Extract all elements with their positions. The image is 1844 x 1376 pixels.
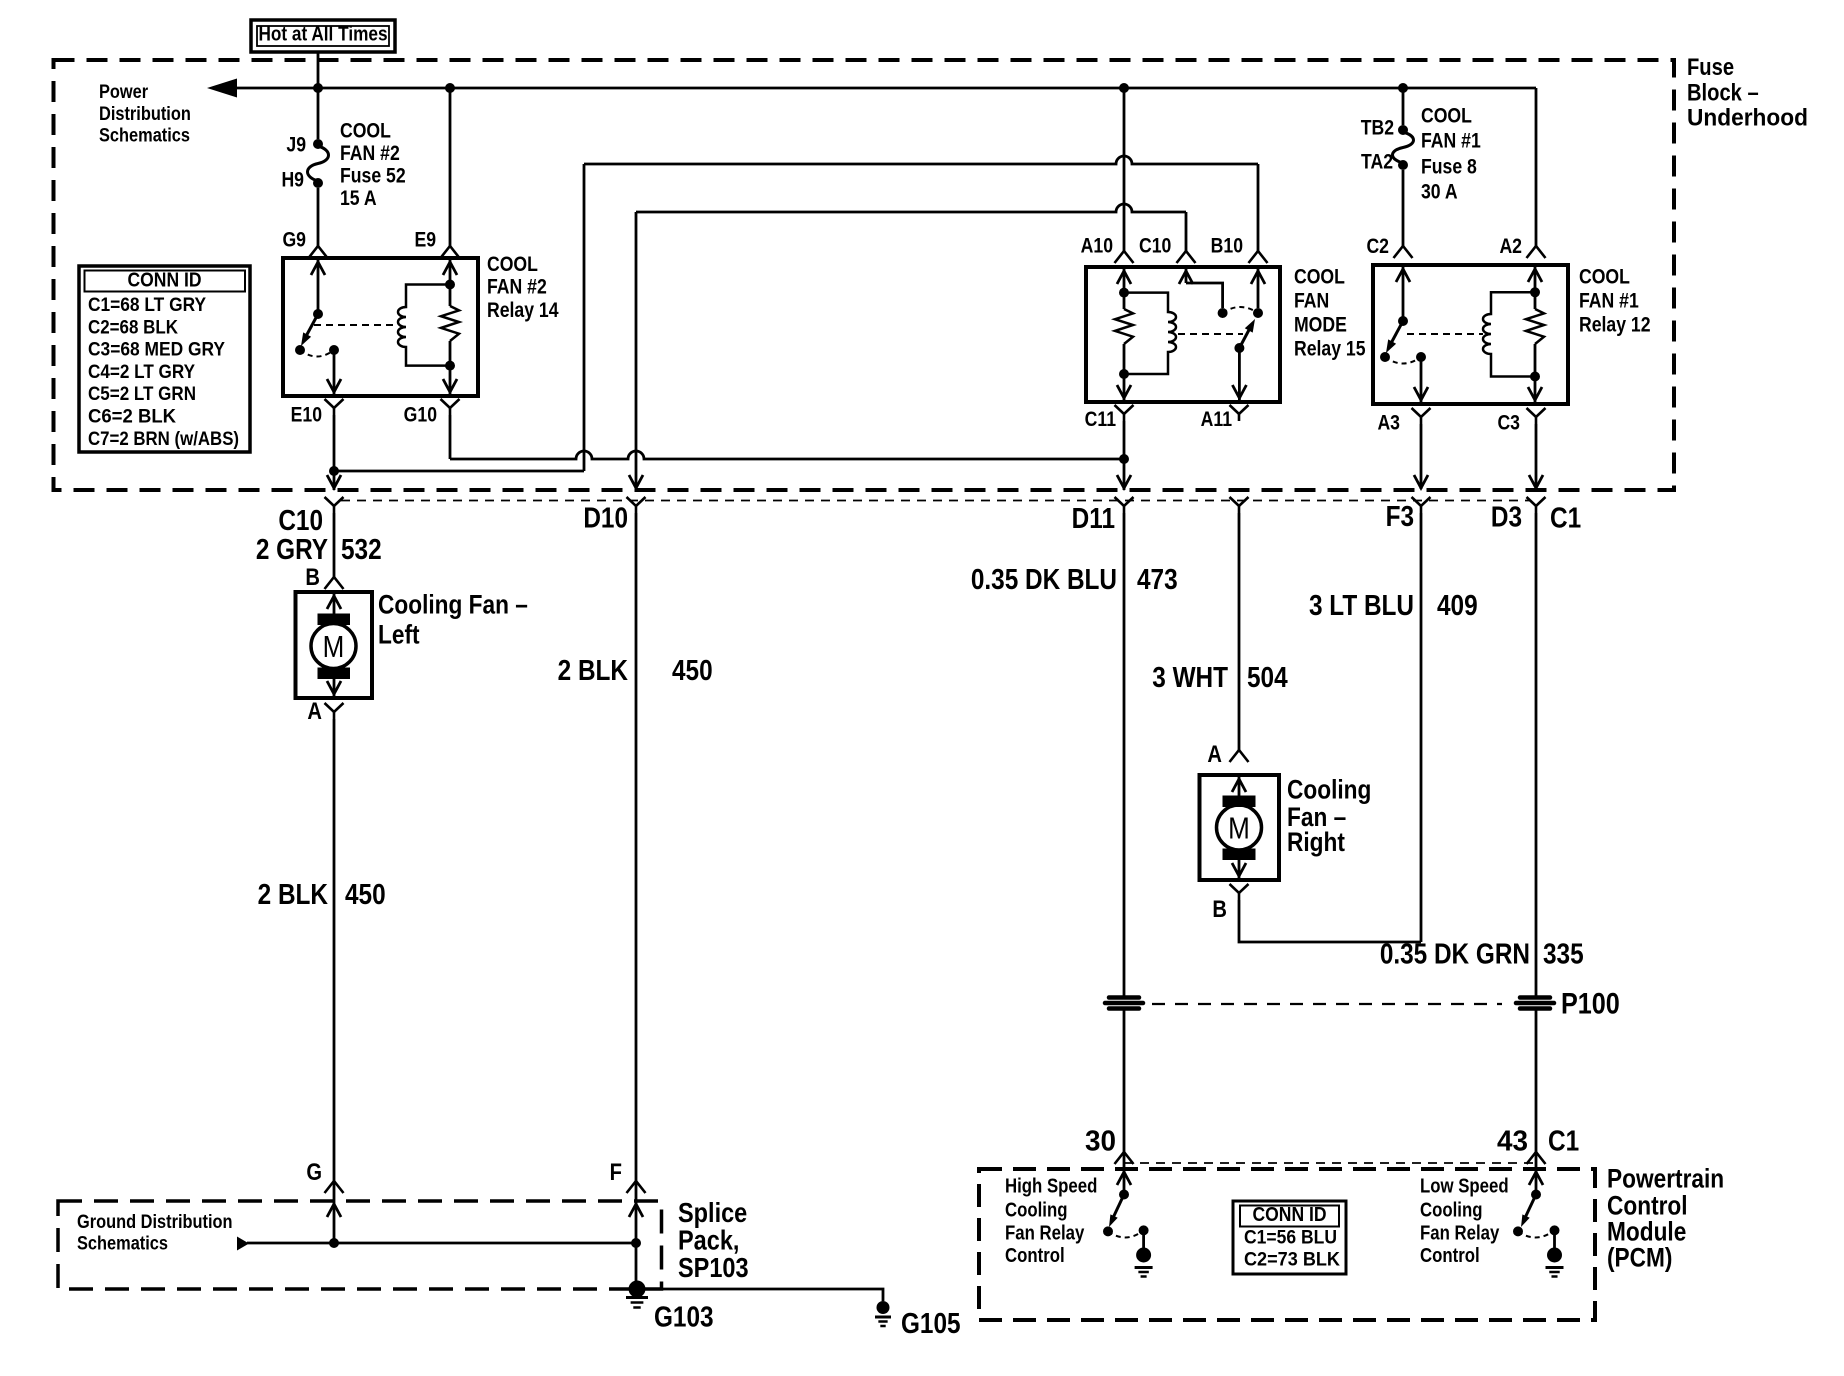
svg-text:E9: E9: [414, 228, 436, 252]
svg-text:D3: D3: [1491, 501, 1522, 533]
svg-text:Fan Relay: Fan Relay: [1420, 1221, 1500, 1244]
pin E10 chevron: [325, 399, 344, 408]
relay14 switch pivot: [313, 309, 323, 319]
wire 0.35 DK BLU 473: [1123, 513, 1126, 997]
PCM low speed switch blade: [1524, 1195, 1536, 1221]
svg-text:FAN: FAN: [1294, 289, 1329, 313]
wire 3 WHT 504: [1238, 513, 1241, 750]
relay K14 COOL FAN 2 Relay 14 box: [283, 258, 478, 396]
svg-text:C6=2 BLK: C6=2 BLK: [88, 405, 176, 427]
svg-text:D11: D11: [1072, 502, 1115, 534]
pin C3 chevron: [1527, 408, 1546, 417]
svg-text:A3: A3: [1377, 411, 1400, 435]
node bus-G9 junction: [313, 83, 323, 93]
svg-text:C1=56 BLU: C1=56 BLU: [1244, 1226, 1337, 1248]
wire E10 branch horizontal: [334, 470, 584, 473]
svg-text:G: G: [306, 1158, 322, 1185]
svg-text:Fan Relay: Fan Relay: [1005, 1221, 1085, 1244]
svg-text:A: A: [1207, 740, 1222, 767]
wire C11 to junction: [1123, 421, 1126, 459]
relay15 coil top junction: [1119, 288, 1129, 298]
svg-text:CONN ID: CONN ID: [127, 269, 201, 292]
connector 3WHT chevron: [1230, 497, 1249, 506]
svg-text:Fuse: Fuse: [1687, 53, 1734, 80]
svg-text:G103: G103: [654, 1301, 714, 1333]
grommet left P100: [1109, 995, 1139, 1000]
svg-text:Left: Left: [378, 620, 420, 650]
relay14 coil actuation dashed link: [314, 324, 398, 326]
node G10-C11 junction: [1119, 454, 1129, 464]
node G ground junction: [329, 1238, 339, 1248]
relay15 coil actuation dashed link: [1178, 333, 1243, 335]
relay15 C10 internal elbow: [1185, 267, 1188, 283]
svg-text:C7=2 BRN (w/ABS): C7=2 BRN (w/ABS): [88, 427, 239, 449]
svg-text:Distribution: Distribution: [99, 103, 191, 125]
svg-text:Underhood: Underhood: [1687, 104, 1808, 131]
relay15 C11 wire: [1123, 344, 1126, 402]
PCM high speed ground ball: [1136, 1248, 1151, 1263]
wire 0.35 DK GRN 335: [1535, 513, 1538, 997]
svg-text:COOL: COOL: [1421, 104, 1472, 128]
CONN ID table PCM: [1233, 1201, 1346, 1274]
pin A10 chevron: [1115, 251, 1134, 263]
Powertrain Control Module dashed boundary: [979, 1169, 1595, 1320]
pin B10 chevron: [1249, 251, 1268, 263]
node bus-A10 junction: [1119, 83, 1129, 93]
pin A chevron right fan: [1230, 750, 1249, 762]
svg-text:C1: C1: [1550, 502, 1581, 534]
svg-text:A11: A11: [1201, 408, 1233, 432]
svg-text:Relay 15: Relay 15: [1294, 337, 1366, 361]
wire D10 riser corner: [635, 212, 638, 489]
svg-text:15 A: 15 A: [340, 187, 377, 211]
svg-text:Control: Control: [1420, 1244, 1480, 1267]
PCM low speed ground stem: [1553, 1230, 1556, 1249]
svg-text:Right: Right: [1287, 827, 1345, 857]
svg-text:C3=68 MED GRY: C3=68 MED GRY: [88, 338, 225, 360]
relay15 resistor: [1115, 309, 1133, 344]
wire right fan B to F3 corner: [1239, 900, 1421, 942]
pin G10 chevron: [441, 399, 460, 408]
wire E10 riser: [583, 164, 586, 471]
pin F chevron: [627, 1181, 646, 1193]
svg-text:Cooling Fan –: Cooling Fan –: [378, 590, 528, 620]
PCM high speed NO contact: [1103, 1226, 1113, 1236]
wire E10 junction down to border: [333, 471, 336, 490]
relay12 coil top junction: [1530, 287, 1540, 297]
ground G105 ball: [877, 1301, 890, 1314]
ground G105 symbol: [875, 1316, 891, 1319]
relay14 switch output contact: [329, 345, 339, 355]
svg-text:B10: B10: [1211, 234, 1243, 258]
ground bus off-page arrow: [237, 1237, 249, 1251]
pin E9 chevron: [441, 246, 460, 258]
relay15 coil bottom junction: [1119, 369, 1129, 379]
relay14 coil top junction: [445, 280, 455, 290]
relay15 B10 wire: [1257, 267, 1260, 308]
svg-text:Control: Control: [1005, 1244, 1065, 1267]
relay12 switch NO contact: [1380, 352, 1390, 362]
connector C10 chevron: [325, 497, 344, 506]
wire G into ground box: [333, 1181, 336, 1243]
relay15 NC contact: [1218, 308, 1228, 318]
PCM high speed switch blade: [1112, 1195, 1124, 1221]
wire 3 LT BLU 409: [1420, 424, 1423, 489]
wire grommet to PCM pin 30: [1123, 1009, 1126, 1152]
svg-text:F: F: [610, 1158, 622, 1185]
svg-text:FAN #2: FAN #2: [487, 275, 547, 299]
PCM high speed driver wire: [1123, 1152, 1126, 1194]
node F ground junction: [631, 1238, 641, 1248]
relay15 A11 wire: [1238, 348, 1241, 402]
Hot at All Times power feed box: [251, 20, 395, 52]
svg-text:B: B: [1212, 895, 1227, 922]
svg-text:473: 473: [1137, 563, 1178, 595]
svg-text:409: 409: [1437, 589, 1478, 621]
svg-text:30 A: 30 A: [1421, 180, 1458, 204]
pin G9 chevron: [309, 246, 328, 258]
svg-text:C10: C10: [1139, 234, 1171, 258]
wire fuse 52 to G9: [317, 188, 320, 246]
svg-text:COOL: COOL: [1579, 265, 1630, 289]
svg-text:Low Speed: Low Speed: [1420, 1174, 1509, 1197]
grommet dashed pass-through line: [1152, 1003, 1502, 1005]
svg-text:Powertrain: Powertrain: [1607, 1164, 1724, 1194]
wire bus corner to A2: [1535, 88, 1538, 246]
pin B chevron left fan: [325, 577, 344, 589]
relay12 switch output contact: [1416, 352, 1426, 362]
svg-text:C4=2 LT GRY: C4=2 LT GRY: [88, 361, 195, 383]
svg-text:Relay 14: Relay 14: [487, 299, 559, 323]
pin A chevron left fan: [325, 703, 344, 712]
svg-text:FAN #1: FAN #1: [1421, 129, 1481, 153]
svg-text:Relay 12: Relay 12: [1579, 313, 1651, 337]
wire SP103 to G105: [645, 1289, 883, 1301]
svg-text:Pack,: Pack,: [678, 1226, 739, 1256]
connector D10 chevron: [627, 497, 646, 506]
wire grommet to PCM pin 43: [1535, 1009, 1538, 1152]
pin C11 chevron: [1115, 405, 1134, 414]
connector boundary thin dashed line: [341, 500, 1530, 502]
svg-text:A2: A2: [1499, 235, 1522, 259]
CONN ID table fuse block: [79, 266, 250, 452]
svg-text:CONN ID: CONN ID: [1252, 1204, 1326, 1227]
svg-text:335: 335: [1543, 938, 1584, 970]
PCM connector thin dashed line: [1124, 1162, 1536, 1164]
relay12 coil bottom junction: [1530, 372, 1540, 382]
wire left fan ground 2 BLK 450: [333, 719, 336, 1181]
PCM low speed NO contact: [1513, 1226, 1523, 1236]
PCM high speed contact dashed arc: [1108, 1230, 1144, 1237]
pin 30 chevron: [1115, 1152, 1134, 1164]
relay14 switch NO contact: [295, 345, 305, 355]
wire fuse 8 to C2: [1402, 170, 1405, 246]
svg-text:C1=68 LT GRY: C1=68 LT GRY: [88, 294, 206, 316]
Ground Distribution dashed boundary: [58, 1201, 662, 1289]
pin A2 chevron: [1527, 246, 1546, 258]
relay12 A2-C3 wire lower: [1534, 344, 1537, 404]
svg-text:C3: C3: [1497, 411, 1520, 435]
node E10 branch junction: [329, 466, 339, 476]
svg-text:2 BLK: 2 BLK: [258, 878, 329, 910]
pin 43 C1 chevron: [1527, 1152, 1546, 1164]
relay15 coil: [1124, 293, 1176, 374]
svg-text:G10: G10: [404, 403, 437, 427]
svg-text:FAN #1: FAN #1: [1579, 289, 1639, 313]
wire relay15-C10 drop: [1185, 212, 1188, 251]
svg-text:B: B: [305, 563, 320, 590]
PCM high speed switch pivot: [1119, 1190, 1129, 1200]
relay12 switch pivot: [1398, 316, 1408, 326]
PCM low speed switch pivot: [1531, 1190, 1541, 1200]
svg-text:MODE: MODE: [1294, 313, 1347, 337]
svg-text:3 WHT: 3 WHT: [1152, 661, 1228, 693]
svg-text:C10: C10: [278, 504, 323, 536]
svg-text:450: 450: [345, 878, 386, 910]
svg-text:SP103: SP103: [678, 1253, 749, 1283]
svg-text:Schematics: Schematics: [77, 1232, 168, 1254]
wire 2 BLK 450 D10: [635, 513, 638, 1181]
wire 2 GRY 532: [333, 513, 336, 577]
svg-text:COOL: COOL: [1294, 265, 1345, 289]
relay12 contact dashed arc: [1385, 357, 1421, 364]
ground G103 symbol: [626, 1296, 648, 1299]
fuse F8 COOL FAN 1 Fuse 8 30A: [1398, 125, 1408, 135]
svg-text:Fuse 52: Fuse 52: [340, 164, 406, 188]
svg-text:M: M: [323, 630, 345, 665]
svg-text:(PCM): (PCM): [1607, 1243, 1672, 1273]
PCM low speed ground contact: [1550, 1225, 1560, 1235]
wire D11 to border: [1123, 459, 1126, 490]
node bus-fuse8 junction: [1398, 83, 1408, 93]
svg-text:2 GRY: 2 GRY: [256, 533, 328, 565]
relay K12 COOL FAN 1 Relay 12 box: [1373, 265, 1568, 404]
PCM high speed ground symbol: [1135, 1266, 1153, 1269]
relay12 A2 wire upper: [1534, 265, 1537, 309]
svg-text:532: 532: [341, 533, 382, 565]
svg-text:43: 43: [1497, 1125, 1528, 1157]
svg-text:C11: C11: [1085, 408, 1117, 432]
pin B chevron right fan: [1230, 884, 1249, 893]
connector D11 chevron: [1115, 497, 1134, 506]
svg-text:3 LT BLU: 3 LT BLU: [1309, 589, 1414, 621]
pin A3 chevron: [1412, 408, 1431, 417]
svg-text:G9: G9: [282, 228, 306, 252]
svg-text:C2: C2: [1366, 235, 1389, 259]
pin A11 chevron: [1230, 405, 1249, 414]
svg-text:H9: H9: [281, 168, 304, 192]
svg-text:D10: D10: [583, 502, 628, 534]
svg-text:Cooling: Cooling: [1005, 1198, 1067, 1221]
relay14 coil bottom junction: [445, 361, 455, 371]
relay15 switch pivot contact: [1253, 308, 1263, 318]
svg-text:TA2: TA2: [1361, 150, 1393, 174]
Fuse Block - Underhood dashed boundary: [54, 60, 1675, 490]
relay12 coil: [1483, 292, 1535, 376]
connector F3 chevron: [1412, 497, 1431, 506]
motor M left Cooling Fan Left: [296, 592, 373, 698]
svg-text:M: M: [1228, 811, 1250, 846]
wire B10 drop: [1257, 164, 1260, 251]
svg-text:0.35 DK GRN: 0.35 DK GRN: [1380, 938, 1530, 970]
svg-text:30: 30: [1085, 1125, 1116, 1157]
pin G chevron: [325, 1181, 344, 1193]
svg-text:FAN #2: FAN #2: [340, 142, 400, 166]
svg-text:F3: F3: [1386, 500, 1414, 532]
PCM low speed ground ball: [1547, 1248, 1562, 1263]
relay12 A3 output wire: [1420, 357, 1423, 404]
svg-text:G105: G105: [901, 1307, 961, 1339]
relay14 switch contact dashed arc: [300, 350, 334, 357]
PCM low speed driver wire: [1535, 1152, 1538, 1194]
svg-text:J9: J9: [286, 133, 306, 157]
wire G10 drop from relay: [449, 415, 452, 459]
svg-text:Cooling: Cooling: [1287, 775, 1371, 805]
svg-text:Power: Power: [99, 81, 148, 103]
svg-text:Ground Distribution: Ground Distribution: [77, 1211, 233, 1233]
svg-text:A: A: [307, 697, 322, 724]
wire ground bus: [247, 1242, 636, 1245]
svg-text:C2=73 BLK: C2=73 BLK: [1244, 1248, 1340, 1270]
svg-text:High Speed: High Speed: [1005, 1174, 1097, 1197]
relay15 switch blade: [1239, 328, 1250, 348]
wire C3 to border: [1535, 424, 1538, 490]
svg-text:Fuse 8: Fuse 8: [1421, 155, 1477, 179]
svg-text:A10: A10: [1081, 234, 1113, 258]
PCM high speed ground stem: [1142, 1230, 1145, 1249]
relay14 E9 wire upper: [449, 258, 452, 306]
relay14 E10 output wire: [333, 350, 336, 396]
PCM low speed contact dashed arc: [1518, 1230, 1555, 1237]
svg-text:Splice: Splice: [678, 1198, 747, 1228]
relay14 switch blade: [304, 314, 318, 340]
svg-text:Hot at All Times: Hot at All Times: [258, 23, 387, 46]
wire A10 drop from bus: [1123, 88, 1126, 251]
svg-text:E10: E10: [291, 403, 322, 427]
relay15 A10 coil wire: [1123, 267, 1126, 309]
svg-text:504: 504: [1247, 661, 1288, 693]
relay14 resistor: [441, 306, 459, 341]
motor M right Cooling Fan Right: [1200, 775, 1280, 880]
wire bus to E9: [449, 88, 452, 246]
relay15 switch common: [1234, 343, 1244, 353]
node bus-E9 junction: [445, 83, 455, 93]
svg-text:Cooling: Cooling: [1420, 1198, 1482, 1221]
relay14 E9-G10 wire lower: [449, 341, 452, 396]
relay14 coil: [398, 285, 450, 366]
PCM low speed ground symbol: [1546, 1266, 1564, 1269]
svg-text:C5=2 LT GRN: C5=2 LT GRN: [88, 383, 196, 405]
wire bus to fuse 8: [1402, 88, 1405, 125]
svg-text:COOL: COOL: [487, 253, 538, 277]
wire Hot box to fuse 52: [317, 52, 320, 139]
wire hot bus: [234, 87, 1536, 90]
relay12 switch blade: [1389, 321, 1403, 347]
svg-text:Block –: Block –: [1687, 79, 1759, 106]
relay K15 COOL FAN MODE Relay 15 box: [1086, 267, 1280, 402]
PCM high speed ground contact: [1139, 1225, 1149, 1235]
relay15 contact dashed arc: [1223, 307, 1258, 313]
relay12 switch input wire C2: [1402, 265, 1405, 321]
relay14 switch input wire G9: [317, 258, 320, 314]
fuse F52 COOL FAN 2 Fuse 52 15A: [313, 139, 323, 149]
svg-text:TB2: TB2: [1361, 116, 1394, 140]
wire F into ground box: [635, 1181, 638, 1289]
connector D3 chevron: [1527, 497, 1546, 506]
svg-text:COOL: COOL: [340, 119, 391, 143]
pin C2 chevron: [1394, 246, 1413, 258]
wire G10 run to C11 junction with hops: [450, 451, 1124, 459]
svg-text:C1: C1: [1548, 1125, 1579, 1157]
wire E10 to B10 horizontal with hop: [584, 156, 1258, 164]
power distribution off-page arrow: [207, 79, 237, 98]
grommet right P100: [1520, 995, 1550, 1000]
svg-text:P100: P100: [1561, 986, 1620, 1020]
svg-text:C2=68 BLK: C2=68 BLK: [88, 316, 178, 338]
splice SP103: [629, 1281, 646, 1298]
wire D10 to relay15-C10 horizontal with hop: [636, 204, 1186, 212]
pin relay15 C10 chevron: [1177, 251, 1196, 263]
svg-text:2 BLK: 2 BLK: [558, 654, 629, 686]
svg-text:Schematics: Schematics: [99, 124, 190, 146]
svg-text:0.35 DK BLU: 0.35 DK BLU: [971, 563, 1117, 595]
relay12 coil actuation dashed link: [1407, 333, 1483, 335]
relay12 resistor: [1526, 309, 1544, 344]
wire E10 to C10 connector and junction: [333, 415, 336, 471]
svg-text:450: 450: [672, 654, 713, 686]
